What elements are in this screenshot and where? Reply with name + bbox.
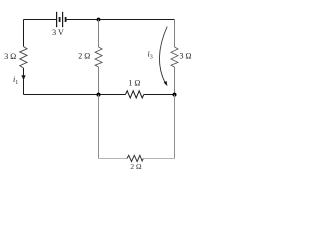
resistor R5 2ohm bottom zigzag	[127, 155, 143, 161]
wire top rail right segment	[66, 19, 175, 21]
wire left rail lower	[23, 68, 25, 95]
svg-text:2 Ω: 2 Ω	[130, 162, 142, 171]
wire gray left vertical of bottom loop	[98, 95, 100, 159]
battery V1 plates	[57, 12, 66, 27]
svg-text:3 Ω: 3 Ω	[180, 52, 192, 61]
wire gray right vertical of bottom loop	[174, 95, 176, 159]
node junction dot mid-left	[97, 93, 101, 97]
svg-text:i3: i3	[148, 50, 153, 61]
wire left rail upper	[23, 20, 25, 47]
svg-text:3 V: 3 V	[52, 28, 64, 37]
resistor R2 2ohm middle zigzag	[95, 47, 102, 67]
node junction dot mid-right	[173, 93, 177, 97]
wire mid horizontal right part	[144, 94, 175, 96]
wire right rail lower	[174, 67, 176, 95]
wire mid horizontal left part	[99, 94, 126, 96]
wire gray bottom horizontal right	[143, 158, 174, 160]
wire gray bottom horizontal left	[99, 158, 128, 160]
svg-text:1 Ω: 1 Ω	[128, 79, 140, 88]
arrowhead current i1	[21, 75, 25, 80]
resistor R4 1ohm zigzag	[126, 91, 144, 98]
svg-text:3 Ω: 3 Ω	[4, 52, 16, 61]
resistor R1 3ohm left zigzag	[20, 47, 27, 69]
svg-text:i1: i1	[13, 75, 18, 86]
resistor R3 3ohm right zigzag	[171, 47, 178, 67]
arrowhead i3	[164, 81, 168, 86]
wire top rail left segment	[24, 19, 57, 21]
wire right rail upper	[174, 20, 176, 48]
wire bottom-left horizontal	[24, 94, 99, 96]
svg-text:2 Ω: 2 Ω	[78, 52, 90, 61]
curved arrow current i3	[159, 27, 167, 84]
node junction dot top	[97, 18, 101, 22]
wire middle rail upper	[98, 20, 100, 48]
wire middle rail lower	[98, 67, 100, 95]
